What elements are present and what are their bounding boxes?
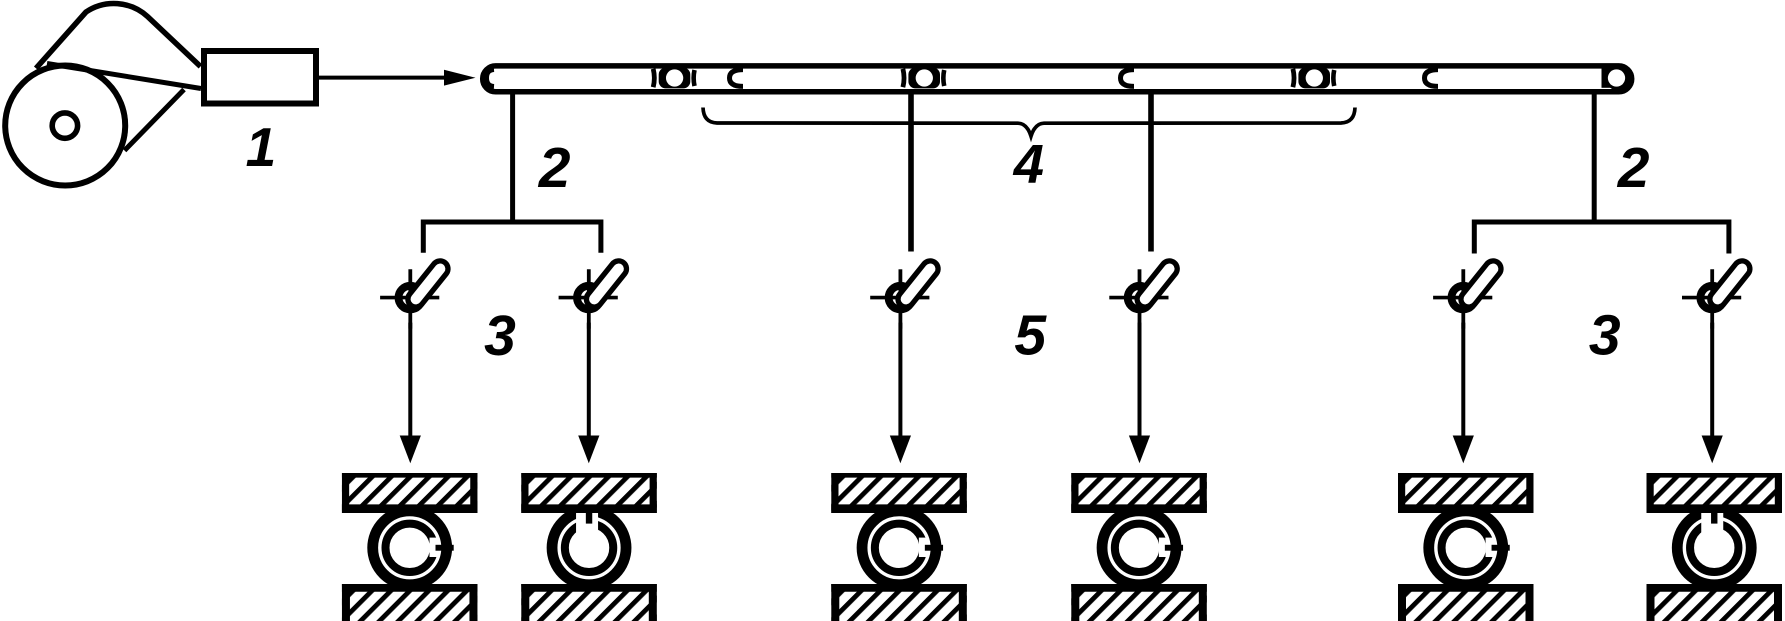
machine box 1 [204, 51, 316, 104]
svg-text:5: 5 [1014, 304, 1047, 368]
feed arrow [319, 70, 476, 86]
drop line right (to holder 2) [1592, 93, 1597, 222]
pipe segment cap at x=1118 (S3) [1121, 70, 1135, 87]
transducer M1 with arrow [870, 261, 938, 463]
svg-text:2: 2 [1617, 136, 1650, 200]
pipe joint at x=674.5 (J1) [653, 68, 694, 89]
roller stand 1 [342, 473, 478, 621]
transducer L2 with arrow [559, 261, 627, 463]
svg-text:4: 4 [1013, 133, 1044, 194]
pipe joint at x=1314.2 (J3) [1293, 68, 1334, 89]
right holder bracket [1474, 222, 1729, 254]
pipe segment cap at x=1422 (S4) [1425, 70, 1439, 87]
svg-text:3: 3 [1589, 304, 1621, 368]
transducer R2 with arrow [1682, 261, 1750, 463]
roller stand 3 [831, 473, 967, 621]
drop line mid-left [908, 93, 914, 252]
transducer R1 with arrow [1433, 261, 1501, 463]
svg-text:3: 3 [484, 304, 516, 368]
transducer L1 with arrow [380, 261, 448, 463]
drop line mid-right [1148, 93, 1154, 252]
roller stand 5 [1398, 473, 1534, 621]
roller stand 6 [1647, 473, 1783, 621]
pipe left inner cap [487, 70, 495, 87]
roller stand 2 [521, 473, 657, 621]
pipe right end with hole [1602, 65, 1632, 91]
pipe (tube line) [483, 66, 1632, 92]
pipe segment cap at x=727 (S2) [730, 70, 744, 87]
brace 4 [703, 108, 1355, 137]
pipe joint at x=924.2 (J2) [903, 68, 944, 89]
svg-text:1: 1 [246, 116, 277, 178]
svg-text:2: 2 [538, 136, 571, 200]
drop line left (to holder 2) [510, 93, 515, 222]
left holder bracket [423, 222, 601, 253]
transducer M2 with arrow [1109, 261, 1177, 463]
roller stand 4 [1071, 473, 1207, 621]
coil of stock (reel) [5, 4, 201, 186]
